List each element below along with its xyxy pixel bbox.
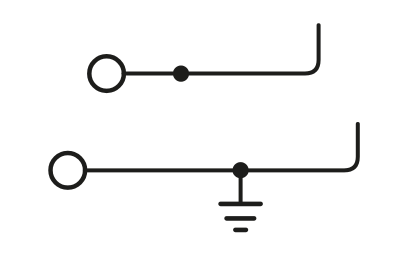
node junction dot on bottom conductor (PE tap) bbox=[233, 162, 249, 178]
node junction dot on top conductor bbox=[173, 66, 189, 82]
wire: top conductor horizontal run with corner up bbox=[123, 25, 318, 73]
wire: vertical stub from junction down to ground symbol bbox=[239, 170, 243, 204]
wire: bottom conductor horizontal run with corner up bbox=[85, 124, 358, 170]
terminal clamp circle T2 (bottom conductor entry) bbox=[51, 153, 86, 188]
terminal clamp circle T1 (top conductor entry) bbox=[89, 56, 124, 91]
ground (PE earth symbol, three bars) bbox=[221, 204, 261, 230]
